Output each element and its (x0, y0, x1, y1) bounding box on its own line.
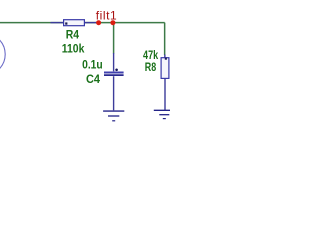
wire (right vertical drop to R8) (164, 23, 166, 55)
svg-text:R4: R4 (66, 30, 80, 42)
resistor R4 pin left (51, 22, 64, 24)
svg-text:C4: C4 (86, 74, 101, 86)
junction dot (left, net filt1) (96, 20, 101, 25)
svg-text:filt1: filt1 (96, 9, 117, 23)
resistor R8 pin bottom / wire to ground (164, 78, 166, 110)
wire (vertical drop to C4) (113, 23, 115, 54)
resistor R8 pin-1 marker dot (165, 58, 167, 60)
resistor R4 pin right (84, 22, 97, 24)
voltage source V1 (circle clipped at left edge) (0, 33, 5, 75)
resistor R8 body (161, 58, 169, 79)
ground (below C4) bar 3 (112, 120, 115, 122)
junction dot (right, at C4 branch) (110, 20, 115, 25)
capacitor C4 top plate (104, 72, 124, 74)
capacitor C4 orientation dot (115, 69, 118, 72)
svg-text:47k: 47k (143, 50, 159, 62)
svg-text:0.1u: 0.1u (82, 58, 103, 72)
ground (below C4) bar 1 (103, 110, 124, 112)
svg-text:R8: R8 (145, 62, 157, 74)
svg-text:110k: 110k (62, 41, 85, 55)
ground (below R8) bar 1 (154, 109, 175, 111)
resistor R4 pin-1 marker dot (65, 22, 67, 24)
resistor R4 body (64, 20, 85, 26)
ground (below R8) bar 2 (159, 114, 169, 116)
resistor R8 pin top (164, 55, 166, 58)
capacitor C4 pin bottom / wire to ground (113, 76, 115, 110)
capacitor C4 pin top (113, 53, 115, 71)
capacitor C4 bottom plate (104, 74, 124, 76)
wire (top horizontal, net filt1) (0, 22, 165, 24)
ground (below R8) bar 3 (163, 118, 166, 120)
ground (below C4) bar 2 (108, 115, 119, 117)
